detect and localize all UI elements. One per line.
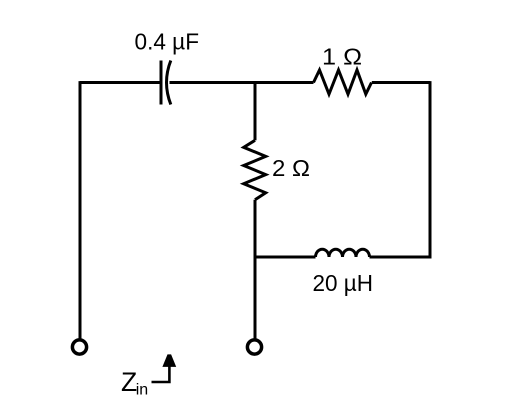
- svg-text:0.4 µF: 0.4 µF: [135, 29, 200, 55]
- svg-text:2 Ω: 2 Ω: [272, 155, 310, 181]
- wire top-left horizontal (left corner to capacitor): [80, 81, 160, 84]
- wire inductor to bottom node: [254, 256, 316, 259]
- capacitor C1 right curved plate: [167, 61, 171, 105]
- arrow for Zin (bent line with up arrowhead): [152, 367, 170, 383]
- svg-text:Zin: Zin: [121, 367, 148, 399]
- wire right vertical: [429, 81, 432, 257]
- wire R1 to top-right corner: [372, 81, 430, 84]
- resistor R2 zigzag vertical: [244, 140, 266, 200]
- wire bottom-right corner to inductor: [370, 256, 431, 257]
- svg-text:1 Ω: 1 Ω: [322, 44, 362, 70]
- wire left vertical: [79, 81, 82, 338]
- inductor L1 humps: [316, 249, 370, 257]
- wire middle node to resistor R1: [255, 81, 314, 84]
- wire middle vertical top (node to R2): [254, 83, 257, 141]
- terminal left open circle: [72, 340, 86, 354]
- arrowhead up triangle: [162, 354, 176, 367]
- svg-text:20 µH: 20 µH: [313, 270, 374, 296]
- capacitor C1 left plate: [160, 61, 163, 105]
- resistor R1 zigzag: [314, 70, 372, 94]
- terminal right open circle: [247, 340, 261, 354]
- wire capacitor to middle node: [170, 81, 257, 84]
- wire middle vertical bottom (R2 through bottom node to terminal): [254, 200, 257, 339]
